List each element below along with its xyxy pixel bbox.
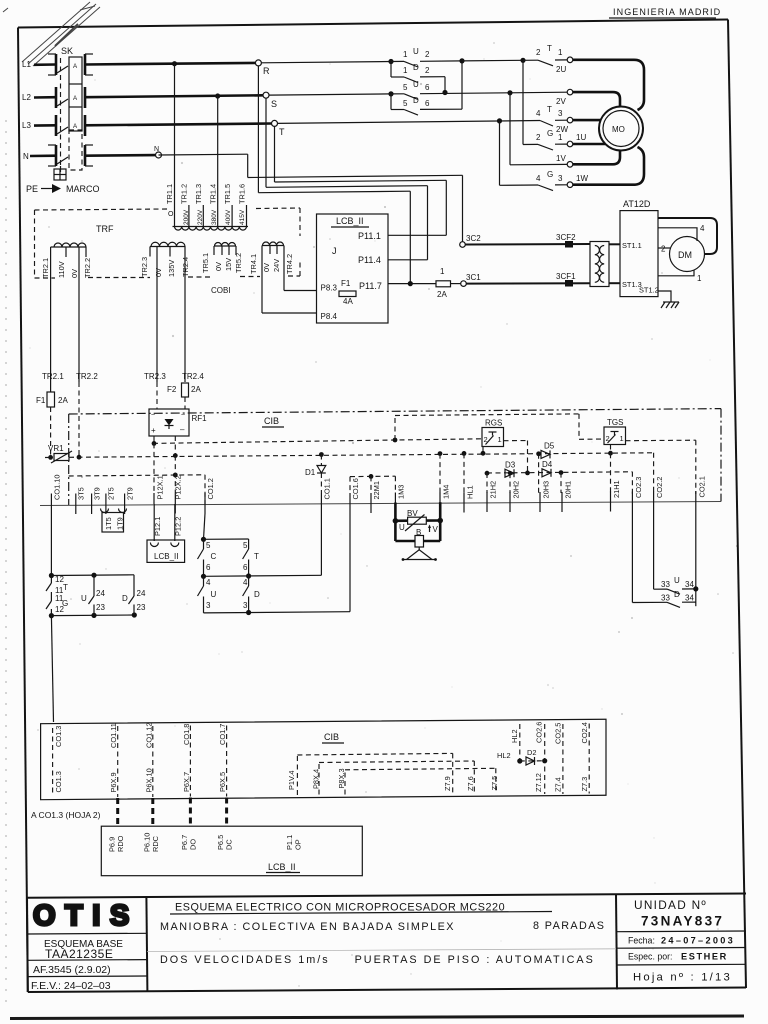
svg-text:0V: 0V	[262, 263, 271, 272]
scan crease marks top-left	[3, 2, 100, 66]
motor selection contacts	[497, 44, 589, 191]
HL2 D2 CO2.x lower columns	[497, 722, 589, 794]
svg-text:HL1: HL1	[466, 485, 475, 499]
fuse 1 2A	[436, 267, 461, 299]
svg-text:24: 24	[137, 589, 146, 598]
svg-text:1: 1	[403, 66, 408, 75]
svg-text:TGS: TGS	[607, 418, 623, 427]
svg-text:U: U	[399, 523, 405, 532]
svg-text:24V: 24V	[272, 259, 281, 272]
svg-text:U: U	[674, 576, 680, 585]
svg-text:3: 3	[206, 601, 211, 610]
svg-text:R: R	[263, 66, 270, 76]
D1 diode on CO1.1 column	[305, 455, 326, 494]
S elbow	[265, 98, 267, 187]
svg-text:1T9: 1T9	[116, 517, 125, 530]
svg-text:P6X.5: P6X.5	[218, 772, 227, 792]
BV buzzer assembly	[393, 502, 443, 561]
contact block2: C T / U D (5/6, 4/3)	[198, 513, 351, 615]
svg-text:P6X.9: P6X.9	[109, 772, 118, 792]
svg-text:F1: F1	[36, 396, 46, 405]
svg-text:22M1: 22M1	[372, 481, 381, 500]
svg-text:2: 2	[661, 245, 666, 254]
svg-text:PE: PE	[26, 184, 38, 194]
SK main switch block	[61, 46, 83, 172]
fuse column	[69, 57, 82, 131]
svg-text:INGENIERIA MADRID: INGENIERIA MADRID	[613, 7, 721, 17]
RF1 bridge rectifier	[149, 409, 207, 456]
svg-text:TRF: TRF	[96, 224, 114, 234]
svg-text:TR4.2: TR4.2	[285, 254, 294, 274]
svg-text:2T5: 2T5	[107, 487, 116, 500]
svg-text:21H1: 21H1	[612, 480, 621, 498]
svg-text:T: T	[63, 583, 68, 592]
svg-text:F1: F1	[341, 279, 351, 288]
svg-text:G: G	[547, 129, 553, 138]
earth clamp under SK	[54, 166, 66, 180]
wire 1V	[509, 93, 511, 165]
svg-text:20H2: 20H2	[512, 481, 521, 499]
CO2 columns down to 33U34 33D34	[632, 511, 698, 607]
CO1.6 22M1 1M3 dashed seg	[350, 475, 395, 477]
svg-text:6: 6	[243, 563, 248, 572]
D5 diode inline	[541, 442, 555, 459]
svg-text:3: 3	[558, 109, 563, 118]
svg-text:TR2.4: TR2.4	[182, 372, 204, 381]
svg-text:OP: OP	[294, 839, 303, 850]
svg-text:J: J	[332, 246, 337, 256]
R elbow	[257, 66, 259, 193]
svg-text:33: 33	[661, 580, 670, 589]
continue down to lower strip	[51, 616, 53, 722]
svg-text:AT12D: AT12D	[623, 199, 651, 209]
svg-text:CIB: CIB	[264, 416, 279, 426]
TR4 secondary 24V	[249, 242, 317, 313]
wire 2V	[507, 90, 512, 95]
svg-text:5: 5	[206, 541, 211, 550]
svg-text:D: D	[254, 590, 260, 599]
svg-text:CO1.1: CO1.1	[323, 478, 332, 499]
svg-text:5: 5	[243, 541, 248, 550]
svg-text:P6X.10: P6X.10	[145, 768, 154, 792]
U contact	[93, 575, 95, 596]
D contact	[133, 575, 135, 596]
svg-text:1: 1	[697, 274, 702, 283]
svg-text:DC: DC	[225, 839, 234, 850]
svg-text:24: 24	[96, 589, 105, 598]
svg-text:CO1.12: CO1.12	[145, 723, 154, 748]
svg-text:DM: DM	[678, 250, 692, 260]
svg-text:6: 6	[425, 83, 430, 92]
wire S thin	[269, 94, 391, 95]
svg-text:A: A	[73, 123, 78, 130]
svg-text:O: O	[168, 211, 174, 218]
svg-text:U: U	[413, 47, 419, 56]
lower LCB_II box	[101, 826, 362, 876]
svg-text:TR1.4: TR1.4	[209, 184, 218, 204]
svg-text:33: 33	[661, 594, 670, 603]
svg-text:Fecha:: Fecha:	[628, 936, 655, 946]
wire R thin to contacts	[261, 62, 391, 63]
svg-text:15V: 15V	[224, 258, 233, 271]
svg-text:2: 2	[425, 66, 430, 75]
svg-text:CO1.2: CO1.2	[206, 478, 215, 499]
svg-text:3CF2: 3CF2	[556, 233, 576, 242]
svg-text:CO1.6: CO1.6	[351, 478, 360, 499]
svg-text:CO2.4: CO2.4	[580, 722, 589, 743]
svg-text:3T9: 3T9	[93, 487, 102, 500]
svg-text:U: U	[211, 590, 217, 599]
N wire to N-circle	[85, 154, 156, 157]
outputs	[153, 436, 155, 443]
main bus line	[40, 502, 721, 506]
Y472 rail with D3 D4 to CO2.3	[485, 460, 633, 494]
contact 2G1 (G slow contactor)	[522, 60, 524, 144]
svg-text:Z7.3: Z7.3	[580, 777, 589, 792]
svg-text:S: S	[271, 99, 277, 109]
svg-text:D: D	[122, 594, 128, 603]
svg-text:20H1: 20H1	[564, 481, 573, 499]
contact 4T3 (T fast contactor)	[497, 118, 502, 123]
lower nested dashed wires P1V.4 P8X.4 P8X.3 to Z7.x	[287, 753, 499, 795]
svg-text:380V: 380V	[211, 209, 218, 225]
svg-text:P8.3: P8.3	[321, 284, 338, 293]
svg-text:ST1.2: ST1.2	[639, 286, 659, 295]
svg-text:A CO1.3 (HOJA 2): A CO1.3 (HOJA 2)	[31, 810, 101, 820]
svg-text:Espec. por:: Espec. por:	[628, 952, 673, 962]
svg-text:SK: SK	[61, 46, 73, 56]
2U wire outer top	[573, 60, 644, 110]
svg-text:1: 1	[558, 48, 563, 57]
svg-text:20H3: 20H3	[542, 481, 551, 499]
svg-text:3: 3	[558, 174, 563, 183]
2W wire	[573, 119, 601, 122]
svg-text:N: N	[154, 146, 159, 153]
DM motor	[658, 218, 717, 283]
svg-text:DOS VELOCIDADES 1m/s PUE: DOS VELOCIDADES 1m/s PUERTAS DE PISO : A…	[160, 954, 595, 966]
svg-text:4: 4	[536, 109, 541, 118]
L1 wire to R	[85, 63, 255, 65]
svg-text:CO1.11: CO1.11	[109, 723, 118, 748]
TR5 secondary COBI	[201, 243, 243, 295]
svg-text:CO1.7: CO1.7	[218, 724, 227, 745]
TR2.1 column with F1 fuse	[36, 257, 98, 457]
svg-text:0V: 0V	[214, 262, 223, 271]
svg-text:P1V.4: P1V.4	[287, 771, 296, 790]
svg-text:–: –	[180, 425, 185, 434]
svg-text:23: 23	[137, 603, 146, 612]
svg-text:2T9: 2T9	[126, 487, 135, 500]
svg-text:L3: L3	[22, 121, 31, 130]
svg-text:RDC: RDC	[151, 835, 160, 852]
svg-text:415V: 415V	[239, 209, 246, 225]
svg-text:6: 6	[425, 99, 430, 108]
svg-text:2V: 2V	[556, 97, 566, 106]
svg-text:Z7.4: Z7.4	[554, 777, 563, 792]
node L1-TR1	[172, 61, 177, 66]
svg-text:LCB_II: LCB_II	[154, 552, 178, 561]
svg-text:TAA21235E: TAA21235E	[45, 947, 113, 961]
svg-text:T: T	[547, 105, 552, 114]
svg-text:C: C	[211, 552, 217, 561]
svg-text:CO1.10: CO1.10	[53, 475, 62, 500]
svg-text:DO: DO	[189, 839, 198, 850]
svg-text:CO2.1: CO2.1	[697, 476, 706, 497]
svg-text:D4: D4	[542, 460, 553, 469]
L2 wire to S	[85, 95, 263, 97]
svg-text:A: A	[73, 63, 78, 70]
svg-text:4: 4	[536, 174, 541, 183]
svg-text:F2: F2	[167, 385, 177, 394]
1T5 1T9 plug	[101, 509, 127, 533]
svg-text:34: 34	[685, 580, 694, 589]
TR2 secondary 135V	[140, 242, 190, 277]
svg-text:110V: 110V	[57, 261, 66, 278]
motor MO	[573, 60, 644, 185]
svg-text:TR5.1: TR5.1	[201, 253, 210, 273]
svg-text:MO: MO	[612, 125, 625, 134]
svg-text:N: N	[23, 152, 29, 161]
svg-text:T: T	[547, 44, 552, 53]
svg-text:4A: 4A	[343, 297, 353, 306]
svg-text:TR2.1: TR2.1	[41, 258, 50, 278]
mid line to CO1.1	[201, 574, 206, 579]
small dashed box P12X area	[69, 443, 205, 504]
svg-text:P12X.2: P12X.2	[173, 475, 182, 499]
each tick	[50, 494, 52, 515]
svg-text:TR2.3: TR2.3	[144, 372, 166, 381]
svg-text:4: 4	[206, 578, 211, 587]
Y455 down to CO2.2	[653, 453, 655, 494]
TGS pin1 to CO2.1	[626, 439, 696, 442]
lower CIB strip box	[41, 719, 606, 799]
svg-text:400V: 400V	[225, 209, 232, 225]
P11 wires	[388, 234, 446, 236]
svg-text:CO1.8: CO1.8	[182, 724, 191, 745]
terminal row labels and ticks	[51, 475, 706, 514]
svg-text:5: 5	[403, 83, 408, 92]
TGS feed wire Y415	[395, 414, 604, 440]
svg-text:D1: D1	[305, 468, 316, 477]
left perforation dotted edge	[5, 120, 7, 1010]
svg-text:D: D	[413, 96, 419, 105]
svg-text:Z7.9: Z7.9	[443, 776, 452, 791]
svg-text:Z7.6: Z7.6	[466, 776, 475, 791]
svg-text:CO1.3: CO1.3	[54, 726, 63, 747]
svg-text:1: 1	[620, 434, 624, 443]
svg-text:TR5.2: TR5.2	[234, 253, 243, 273]
svg-text:MANIOBRA : COLECTIVA EN BAJ: MANIOBRA : COLECTIVA EN BAJADA SIMPLEX	[160, 921, 455, 933]
svg-text:2A: 2A	[191, 385, 201, 394]
contact 1D2 (D contactor)	[390, 62, 392, 78]
dashed enclosure	[60, 58, 62, 172]
svg-text:TR1.3: TR1.3	[194, 184, 203, 204]
svg-text:ESTHER: ESTHER	[681, 952, 728, 962]
svg-text:23: 23	[96, 603, 105, 612]
TR1 primary winding	[165, 64, 248, 230]
svg-text:D: D	[413, 63, 419, 72]
svg-text:U: U	[413, 80, 419, 89]
svg-text:AF.3545 (2.9.02): AF.3545 (2.9.02)	[33, 964, 111, 976]
svg-text:1: 1	[498, 435, 502, 444]
svg-text:4: 4	[243, 578, 248, 587]
svg-text:D3: D3	[505, 461, 516, 470]
svg-text:T: T	[279, 127, 285, 137]
RGS	[482, 419, 530, 476]
svg-text:CO2.5: CO2.5	[554, 723, 563, 744]
svg-text:TR2.3: TR2.3	[140, 257, 149, 277]
AT12D box	[620, 199, 659, 297]
1V wire inner bottom	[573, 151, 620, 165]
VR1 varistor	[48, 444, 81, 463]
TR2.3 / TR2.4 columns with F2 and RF1	[144, 257, 204, 410]
svg-text:2U: 2U	[556, 65, 566, 74]
svg-text:COBI: COBI	[211, 286, 231, 295]
svg-text:2A: 2A	[58, 396, 68, 405]
wire T thin	[278, 121, 541, 124]
svg-text:1: 1	[558, 133, 563, 142]
isolation transformer	[590, 242, 620, 287]
svg-text:CO2.2: CO2.2	[655, 477, 664, 498]
svg-text:L1: L1	[22, 60, 31, 69]
svg-text:G: G	[547, 170, 553, 179]
N elbow	[159, 153, 248, 156]
svg-text:0V: 0V	[154, 268, 163, 277]
svg-text:8 PARADAS: 8 PARADAS	[533, 920, 605, 932]
svg-text:P12X.1: P12X.1	[156, 475, 165, 499]
svg-text:P8.4: P8.4	[321, 312, 338, 321]
svg-text:24–07–2003: 24–07–2003	[661, 936, 735, 946]
INGENIERIA MADRID	[609, 7, 721, 18]
wire TR4.2 to P8.3	[283, 254, 285, 291]
TR2.2 column	[78, 257, 80, 382]
svg-text:V: V	[433, 525, 439, 534]
svg-text:D5: D5	[544, 442, 555, 451]
LCB_II upper box	[317, 214, 447, 323]
svg-text:RGS: RGS	[485, 419, 502, 428]
svg-text:TR1.5: TR1.5	[223, 184, 232, 204]
svg-text:1M3: 1M3	[397, 485, 406, 499]
PE arrow MARCO	[26, 184, 100, 194]
T elbow	[274, 126, 276, 182]
svg-text:TR1.1: TR1.1	[165, 184, 174, 204]
TRF dashed box	[35, 208, 301, 278]
svg-text:A: A	[73, 95, 78, 102]
svg-text:D: D	[674, 590, 680, 599]
wire TR4 0V to P8.4	[261, 254, 263, 313]
svg-text:21H2: 21H2	[489, 481, 498, 499]
R terminal	[255, 60, 261, 66]
page bottom scan edge	[10, 1016, 744, 1019]
svg-text:Z7.12: Z7.12	[534, 773, 543, 792]
dashed rail Y442 (RF1 +)	[153, 439, 482, 444]
svg-text:TR4.1: TR4.1	[249, 254, 258, 274]
svg-text:3C1: 3C1	[466, 273, 481, 282]
svg-text:0V: 0V	[70, 269, 79, 278]
svg-text:Hoja nº : 1/13: Hoja nº : 1/13	[633, 972, 732, 984]
svg-text:1M4: 1M4	[442, 485, 451, 499]
contact 2T1 (T fast contactor)	[520, 58, 525, 63]
svg-text:TR2.1: TR2.1	[42, 372, 64, 381]
svg-text:HL2: HL2	[510, 729, 519, 743]
svg-text:CO2.3: CO2.3	[634, 477, 643, 498]
svg-text:P6X.7: P6X.7	[182, 772, 191, 792]
svg-text:220V: 220V	[197, 209, 204, 225]
TGS	[604, 418, 696, 494]
dashed stubs to terminal row	[350, 451, 611, 493]
2V wire inner top	[573, 92, 620, 106]
N pole	[23, 145, 93, 166]
svg-text:+: +	[151, 426, 156, 435]
L2 pole	[22, 87, 85, 108]
3C1 terminal	[461, 281, 467, 287]
svg-text:D2: D2	[527, 748, 536, 757]
svg-text:U: U	[81, 594, 87, 603]
svg-text:3T5: 3T5	[77, 487, 86, 500]
R S T N feeder elbows down to LCB	[159, 66, 463, 284]
contact 4G3 (G slow contactor)	[499, 121, 501, 185]
svg-text:CIB: CIB	[324, 732, 339, 742]
svg-text:2A: 2A	[437, 290, 447, 299]
3CF2 wire	[465, 233, 590, 248]
svg-text:OTIS: OTIS	[33, 900, 139, 932]
svg-text:34: 34	[685, 594, 694, 603]
L1 pole	[22, 54, 93, 75]
svg-text:1W: 1W	[576, 174, 588, 183]
svg-text:1: 1	[440, 267, 445, 276]
P12.1 P12.2 to small LCB_II	[147, 504, 185, 562]
svg-text:CO1.3: CO1.3	[54, 771, 63, 792]
bottom line to CO1.6	[204, 612, 351, 613]
svg-text:TR1.6: TR1.6	[238, 184, 247, 204]
contact 5U6 (U contactor)	[388, 91, 393, 96]
svg-text:2: 2	[425, 50, 430, 59]
L3 pole	[22, 115, 85, 136]
svg-text:4: 4	[700, 224, 705, 233]
lower strip columns	[53, 723, 227, 797]
svg-text:2: 2	[536, 48, 541, 57]
svg-text:TR2.2: TR2.2	[83, 258, 92, 278]
svg-text:LCB_II: LCB_II	[336, 216, 364, 226]
svg-text:135V: 135V	[167, 260, 176, 277]
1W wire outer bottom	[573, 147, 644, 185]
L3 wire to T	[85, 124, 272, 126]
svg-text:3C2: 3C2	[466, 234, 481, 243]
svg-text:T: T	[254, 552, 259, 561]
svg-text:RF1: RF1	[192, 414, 208, 423]
svg-text:1U: 1U	[576, 133, 586, 142]
svg-text:MARCO: MARCO	[66, 184, 100, 194]
3C2 terminal	[460, 242, 466, 248]
svg-text:RDO: RDO	[116, 835, 125, 852]
TR2 secondary 110V	[41, 243, 92, 278]
svg-text:F.E.V.: 24–02–03: F.E.V.: 24–02–03	[31, 980, 111, 992]
contact 5D6 (D contactor)	[390, 94, 392, 110]
svg-text:12: 12	[55, 605, 64, 614]
1U wire	[573, 143, 606, 146]
svg-text:1V: 1V	[556, 154, 566, 163]
svg-text:TR1.2: TR1.2	[180, 184, 189, 204]
dashed rail Y455	[45, 451, 654, 458]
svg-text:73NAY837: 73NAY837	[641, 914, 724, 929]
svg-text:UNIDAD Nº: UNIDAD Nº	[634, 898, 707, 912]
svg-text:1: 1	[403, 50, 408, 59]
svg-text:P11.7: P11.7	[359, 281, 382, 291]
svg-text:ST1.1: ST1.1	[622, 241, 642, 250]
CIB dashed box (middle)	[69, 409, 721, 505]
title block	[27, 894, 746, 993]
bold dashed to lower LCB_II	[118, 798, 227, 827]
